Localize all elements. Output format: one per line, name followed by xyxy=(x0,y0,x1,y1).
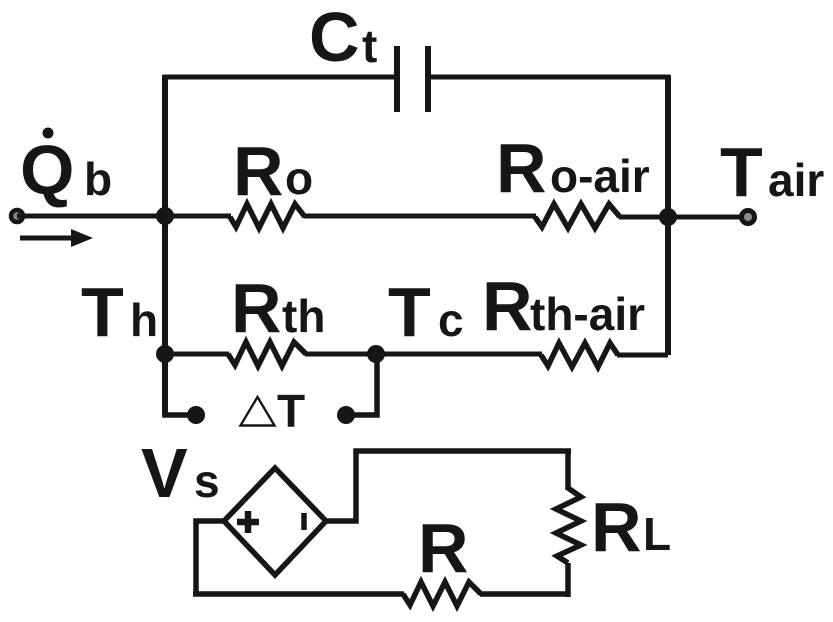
node Tc junction xyxy=(367,345,385,363)
label Ro xyxy=(233,132,313,210)
svg-text:c: c xyxy=(438,294,464,346)
label Th xyxy=(81,273,158,351)
label plus xyxy=(237,511,259,533)
node Th sense terminal xyxy=(187,406,205,424)
svg-text:C: C xyxy=(309,0,360,76)
terminal input node xyxy=(11,210,23,222)
svg-text:T: T xyxy=(720,133,763,211)
svg-text:air: air xyxy=(768,154,824,206)
wire bottom left xyxy=(193,591,404,597)
wire row2 right xyxy=(617,353,668,358)
resistor Rth xyxy=(228,342,306,366)
svg-text:V: V xyxy=(141,434,188,512)
svg-text:T: T xyxy=(388,273,431,351)
wire row2 left xyxy=(165,352,229,357)
label delta T xyxy=(241,385,306,437)
wire top capacitor branch left xyxy=(163,75,394,80)
resistor RL xyxy=(556,488,581,563)
svg-text:R: R xyxy=(591,488,642,566)
svg-text:h: h xyxy=(130,294,158,346)
svg-text:o-air: o-air xyxy=(550,150,650,202)
resistor Ro xyxy=(230,204,305,228)
svg-text:L: L xyxy=(643,508,671,560)
node junction right row1 xyxy=(659,208,677,226)
terminal Tair node xyxy=(742,211,755,224)
wire Th sense stub xyxy=(165,354,195,415)
resistor Rth-air xyxy=(541,343,618,367)
label Rth xyxy=(231,269,325,347)
wire right riser lower xyxy=(565,563,571,597)
svg-text:o: o xyxy=(285,152,313,204)
label R xyxy=(418,509,469,587)
wire bottom right xyxy=(480,591,570,597)
wire left vertical bus xyxy=(162,75,168,415)
label Ro-air xyxy=(496,129,650,207)
label Rth-air xyxy=(482,267,645,345)
capacitor Ct xyxy=(397,46,428,112)
svg-text:T: T xyxy=(277,385,305,437)
node Tc sense terminal xyxy=(337,406,355,424)
wire row2 middle xyxy=(305,352,542,357)
svg-text:R: R xyxy=(482,267,533,345)
svg-text:Q: Q xyxy=(20,131,74,209)
resistor R xyxy=(403,582,481,606)
svg-text:R: R xyxy=(496,129,547,207)
wire source left lead xyxy=(196,521,224,595)
svg-text:t: t xyxy=(362,20,377,72)
svg-text:R: R xyxy=(233,132,284,210)
svg-text:s: s xyxy=(194,455,220,507)
label Ct xyxy=(309,0,377,76)
label Tair xyxy=(720,133,824,211)
svg-text:th: th xyxy=(282,290,325,342)
wire right vertical bus xyxy=(665,75,671,355)
wire row1 middle xyxy=(304,214,536,219)
svg-text:R: R xyxy=(231,269,282,347)
svg-text:b: b xyxy=(84,153,112,205)
label Qb heat flow xyxy=(20,128,112,210)
arrow heat flow direction xyxy=(20,229,93,247)
svg-text:T: T xyxy=(81,273,124,351)
wire source top loop xyxy=(326,451,571,521)
wire row1 right xyxy=(619,215,748,220)
wire Tc sense stub xyxy=(347,354,377,415)
svg-text:th-air: th-air xyxy=(530,288,645,340)
wire right riser upper xyxy=(565,451,571,490)
svg-text:R: R xyxy=(418,509,469,587)
label Tc xyxy=(388,273,464,351)
node junction left row2 xyxy=(156,345,174,363)
node junction left row1 xyxy=(156,207,174,225)
label RL xyxy=(591,488,671,566)
wire row1 left xyxy=(17,214,231,219)
resistor Ro-air xyxy=(535,204,620,228)
label minus xyxy=(301,513,307,530)
wire top capacitor branch right xyxy=(431,75,670,80)
source Vs diamond xyxy=(224,468,326,575)
label Vs xyxy=(141,434,220,512)
